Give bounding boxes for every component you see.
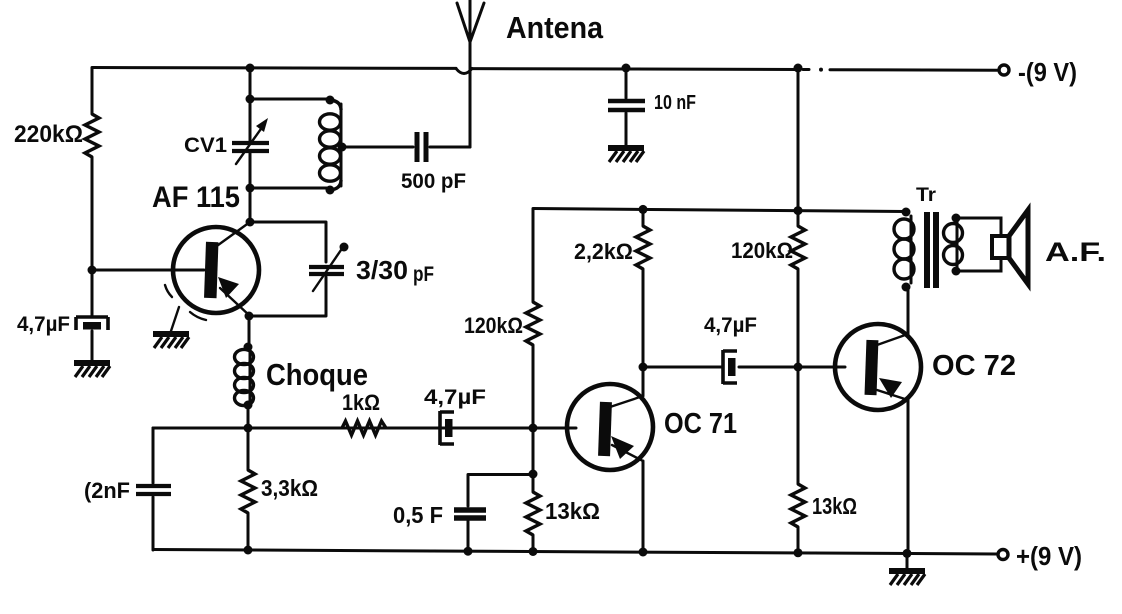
- wire OC72 base: [643, 366, 845, 369]
- wire OC72 emitter to rail: [907, 400, 910, 554]
- svg-text:Tr: Tr: [916, 185, 937, 206]
- wire OC72 collector to transformer: [907, 287, 910, 334]
- speaker A.F.: [992, 236, 1009, 258]
- wire bottom supply rail +9V: [153, 550, 997, 555]
- transformer Tr primary: [902, 208, 911, 217]
- wire top supply rail -9V: [92, 68, 798, 70]
- collector line AF115: [214, 222, 250, 248]
- inductor choke: [244, 343, 253, 352]
- svg-text:13kΩ: 13kΩ: [812, 493, 857, 519]
- svg-text:Antena: Antena: [506, 10, 604, 45]
- wire second rail: [533, 209, 905, 212]
- resistor 220k: [91, 68, 94, 270]
- ground OC72 emitter: [906, 553, 909, 568]
- svg-text:120kΩ: 120kΩ: [464, 313, 523, 338]
- transistor OC72: [835, 324, 921, 410]
- node coil bottom wire: [246, 184, 255, 193]
- wire OC71 collector column: [642, 210, 645, 396]
- battery terminal -(9V): [999, 65, 1009, 75]
- inductor L1 tuning coil: [326, 96, 335, 105]
- capacitor 2nF: [136, 486, 171, 494]
- emitter line AF115 with arrow: [220, 288, 250, 316]
- svg-text:220kΩ: 220kΩ: [14, 121, 83, 148]
- AF115 case dashes: [165, 285, 206, 320]
- wire CV1 to coil top: [250, 98, 330, 101]
- wire 500pF to coil tap: [342, 146, 413, 149]
- capacitor 4,7uF coupling OC72: [723, 350, 737, 384]
- node OC72 base divider: [794, 363, 803, 372]
- wire antenna to 500pF: [430, 146, 470, 149]
- wire collector to 3/30pF: [250, 222, 326, 262]
- wire antenna crossing hop on rail: [456, 69, 472, 74]
- svg-text:4,7µF: 4,7µF: [17, 313, 70, 336]
- resistor 13k right: [791, 484, 805, 527]
- node coil top wire: [246, 95, 255, 104]
- svg-text:CV1: CV1: [184, 134, 227, 157]
- ground AF115 case: [153, 334, 189, 348]
- resistor 120k right: [791, 226, 805, 269]
- wire OC71 base rail: [153, 427, 576, 430]
- trimmer capacitor 3/30pF: [309, 267, 344, 274]
- svg-text:4,7µF: 4,7µF: [704, 314, 757, 337]
- svg-text:13kΩ: 13kΩ: [545, 498, 600, 524]
- svg-text:(2nF: (2nF: [84, 478, 130, 503]
- wire emitter to choke: [248, 316, 251, 347]
- collector line OC71: [610, 396, 643, 407]
- svg-text:500 pF: 500 pF: [401, 170, 466, 193]
- svg-text:0,5 F: 0,5 F: [393, 502, 443, 528]
- node coil tap: [338, 143, 347, 152]
- resistor 13k left: [526, 492, 540, 535]
- transformer secondary: [952, 214, 961, 223]
- svg-text:120kΩ: 120kΩ: [731, 238, 793, 263]
- svg-text:3/30: 3/30: [356, 255, 408, 285]
- node emitter AF115: [245, 312, 254, 321]
- resistor 2,2k: [636, 226, 650, 269]
- svg-text:-(9 V): -(9 V): [1018, 57, 1077, 87]
- wire divider right column: [797, 70, 800, 554]
- node base AF115: [88, 266, 97, 275]
- wire rail to CV1: [249, 68, 252, 142]
- node 0,5F tap: [529, 470, 538, 479]
- svg-text:3,3kΩ: 3,3kΩ: [261, 475, 318, 501]
- capacitor 10nF: [622, 64, 631, 73]
- wire secondary to speaker: [956, 218, 1001, 271]
- svg-text:1kΩ: 1kΩ: [342, 390, 380, 415]
- transistor AF115: [173, 227, 259, 313]
- antenna: [457, 0, 484, 147]
- AF115 case lead: [171, 307, 179, 331]
- node OC71 base divider: [529, 424, 538, 433]
- ground 10nF: [608, 148, 644, 162]
- svg-text:2,2kΩ: 2,2kΩ: [574, 239, 633, 264]
- capacitor 0,5F: [468, 475, 533, 507]
- capacitor 4,7uF coupling OC71: [440, 411, 454, 445]
- svg-text:A.F.: A.F.: [1045, 237, 1106, 267]
- node rail1 to divider right: [794, 64, 803, 73]
- resistor 3,3k: [247, 428, 250, 551]
- node OC71 collector coupling: [639, 363, 648, 372]
- variable capacitor CV1: [232, 143, 269, 151]
- wire choke to base wire: [247, 405, 250, 428]
- wire base AF115: [92, 269, 204, 272]
- resistor 120k left: [526, 302, 540, 345]
- svg-text:OC 71: OC 71: [664, 408, 737, 440]
- wire divider left column: [532, 209, 535, 492]
- wire OC71 emitter to ground rail: [642, 461, 645, 553]
- emitter line OC71 with arrow: [612, 445, 643, 461]
- battery terminal +(9V): [998, 550, 1008, 560]
- svg-text:pF: pF: [413, 263, 434, 286]
- emitter line OC72 with arrow: [877, 390, 908, 400]
- svg-text:4,7µF: 4,7µF: [424, 386, 486, 409]
- capacitor 500pF: [417, 132, 426, 162]
- svg-text:10 nF: 10 nF: [654, 92, 696, 114]
- ground below 4,7uF: [74, 363, 110, 377]
- svg-text:Choque: Choque: [266, 357, 368, 392]
- transistor OC71: [567, 384, 653, 470]
- wire CV1 to coil bottom: [250, 187, 330, 190]
- resistor 1k: [342, 421, 386, 435]
- collector line OC72: [877, 334, 908, 345]
- svg-text:AF 115: AF 115: [152, 181, 240, 214]
- node collector AF115: [246, 218, 255, 227]
- node CV1 top on rail: [246, 64, 255, 73]
- wire left branch down: [152, 428, 155, 483]
- transformer core: [924, 212, 930, 288]
- capacitor 4,7uF emitter-left: [91, 270, 94, 316]
- svg-text:+(9 V): +(9 V): [1016, 541, 1082, 571]
- svg-text:OC 72: OC 72: [932, 350, 1016, 382]
- wire top rail dash-dot section: [803, 68, 997, 72]
